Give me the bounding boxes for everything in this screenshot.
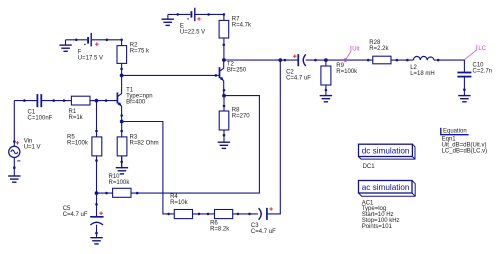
wire: [223, 96, 225, 111]
wire: [122, 122, 175, 214]
wire: [325, 60, 327, 66]
junction T1 collector / T2 base node: [120, 74, 124, 78]
wire: [121, 155, 123, 168]
wire: [223, 38, 225, 60]
wire: [193, 213, 215, 215]
svg-text:ac simulation: ac simulation: [362, 183, 410, 192]
svg-text:C=100nF: C=100nF: [28, 116, 53, 122]
svg-text:U=17.5 V: U=17.5 V: [78, 56, 103, 62]
svg-text:DC1: DC1: [363, 164, 376, 170]
wire: [306, 59, 373, 61]
wire: [121, 122, 123, 137]
wire: [195, 14, 224, 20]
svg-text:LC_dB=dB(LC.v): LC_dB=dB(LC.v): [442, 149, 488, 155]
junction Uit node / R9: [324, 58, 328, 62]
junction output node / C3 feedback: [278, 58, 282, 62]
ac source Vin: [9, 146, 21, 161]
junction T1 emitter node: [120, 120, 124, 124]
plus sign (C2): [293, 54, 297, 58]
transistor T2: [220, 60, 224, 96]
transistor T1: [117, 75, 121, 121]
resistor R10: [113, 188, 131, 197]
ground (R9): [320, 96, 332, 102]
svg-text:dc simulation: dc simulation: [362, 146, 410, 155]
plus sign (battery E): [197, 17, 201, 21]
wire: [96, 101, 98, 137]
wire: [325, 85, 327, 96]
resistor R9: [321, 66, 331, 85]
svg-text:R=10k: R=10k: [170, 200, 189, 206]
battery E: [187, 8, 195, 22]
plus sign (C5): [99, 211, 103, 215]
resistor R5: [92, 137, 102, 156]
wire: [66, 39, 88, 41]
wire: [131, 96, 259, 194]
resistor R8: [219, 111, 229, 130]
svg-text:C=4.7 uF: C=4.7 uF: [251, 229, 276, 235]
wire: [121, 63, 123, 75]
resistor R2: [117, 46, 127, 64]
junction T1 base / R5 node: [95, 99, 99, 103]
wire: [90, 100, 117, 102]
resistor R4: [174, 210, 192, 219]
wire: [13, 158, 15, 176]
svg-text:C=4.7 uF: C=4.7 uF: [63, 212, 88, 218]
resistor R28: [373, 56, 391, 64]
plus sign (Vin): [16, 141, 20, 145]
capacitor C1: [37, 94, 41, 107]
capacitor C5 (polar): [90, 217, 103, 225]
wire: [391, 59, 413, 61]
svg-text:LC: LC: [478, 46, 486, 52]
ground (battery E): [162, 14, 174, 25]
wire: [96, 225, 98, 238]
svg-text:Bf=400: Bf=400: [126, 100, 146, 106]
ground (C10): [458, 96, 470, 102]
svg-text:R=100k: R=100k: [67, 140, 89, 146]
svg-text:R=100k: R=100k: [336, 69, 358, 75]
wire: [268, 60, 281, 214]
svg-text:Bf=250: Bf=250: [227, 68, 247, 74]
capacitor C3 (polar): [259, 208, 267, 220]
svg-text:R=100k: R=100k: [109, 180, 131, 186]
svg-text:Points=101: Points=101: [362, 224, 393, 230]
wire: [42, 100, 72, 102]
battery F: [84, 33, 91, 47]
svg-text:U=22.5 V: U=22.5 V: [180, 29, 205, 35]
svg-text:R=4.7k: R=4.7k: [232, 22, 252, 28]
svg-text:R=8.2k: R=8.2k: [210, 227, 230, 233]
svg-text:R=1k: R=1k: [69, 115, 84, 121]
dc simulation block: [359, 144, 416, 159]
wire: [434, 60, 464, 72]
junction T2 emitter / R8 node: [222, 94, 226, 98]
node label Uit: [344, 46, 351, 62]
wire: [122, 74, 220, 76]
svg-text:Equation: Equation: [443, 129, 467, 135]
ground (R8): [218, 142, 230, 148]
wire: [92, 40, 122, 46]
ground (Vin): [8, 176, 20, 182]
wire: [224, 59, 298, 61]
svg-text:R=75 k: R=75 k: [130, 48, 150, 54]
wire: [463, 77, 465, 96]
svg-text:C=2.7n: C=2.7n: [473, 68, 493, 74]
svg-text:R=2.2k: R=2.2k: [369, 46, 389, 52]
capacitor C2 (polar): [298, 54, 306, 66]
equation block Eqn1: [440, 128, 468, 135]
svg-text:R=82 Ohm: R=82 Ohm: [130, 140, 159, 146]
ac simulation block: [359, 181, 416, 197]
resistor R3: [117, 137, 127, 156]
plus sign (C3): [269, 207, 273, 211]
svg-text:R=270: R=270: [232, 113, 251, 119]
node label LC: [465, 45, 477, 60]
capacitor C10: [457, 73, 471, 77]
ground (battery F): [59, 40, 71, 52]
wire: [13, 101, 15, 147]
ground (R3): [116, 156, 128, 174]
wire pin connection dots: [13, 13, 466, 234]
wire: [223, 130, 225, 142]
resistor R1: [71, 96, 90, 105]
wire: [168, 13, 190, 15]
svg-text:C=4.7 uF: C=4.7 uF: [286, 76, 311, 82]
junction T2 collector / R7 node: [222, 58, 226, 62]
inductor L2: [413, 56, 434, 60]
wire: [233, 213, 258, 215]
wire: [14, 100, 37, 102]
plus sign (battery F): [95, 42, 99, 46]
svg-text:Uit: Uit: [352, 46, 360, 52]
wire: [97, 192, 113, 194]
wire: [96, 156, 98, 216]
svg-text:U=1 V: U=1 V: [24, 145, 41, 151]
svg-text:L=18 mH: L=18 mH: [410, 71, 435, 77]
resistor R6: [215, 210, 233, 219]
resistor R7: [219, 20, 229, 38]
junction R5/R10/C5 node: [95, 191, 99, 195]
ground (C5): [90, 238, 102, 244]
